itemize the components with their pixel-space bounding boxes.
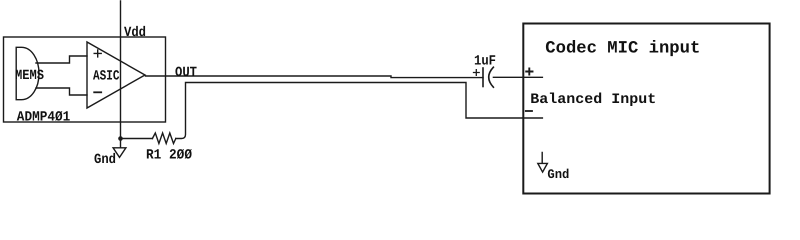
node junction dot <box>118 136 123 141</box>
codec box <box>523 24 769 194</box>
op-amp - input mark <box>94 91 101 93</box>
svg-text:Gnd: Gnd <box>547 167 569 182</box>
capacitor C1 positive plate <box>482 68 484 87</box>
svg-text:OUT: OUT <box>175 65 197 81</box>
wire MEMS to ASIC + input <box>36 56 87 63</box>
svg-text:Vdd: Vdd <box>124 25 146 41</box>
ground symbol codec <box>538 152 548 172</box>
wire Vdd supply vertical <box>120 1 122 139</box>
op-amp + input mark <box>94 50 101 57</box>
wire OUT from op-amp output <box>146 76 484 78</box>
svg-text:Gnd: Gnd <box>94 152 116 168</box>
microphone element MEMS <box>16 47 39 99</box>
codec - input mark <box>526 110 532 112</box>
wire output node to resistor and balanced negative line <box>121 138 153 140</box>
capacitor C1 curved plate <box>489 67 494 87</box>
svg-text:Codec MIC input: Codec MIC input <box>545 39 700 58</box>
codec + input mark <box>526 68 532 74</box>
capacitor polarity + mark <box>474 70 480 76</box>
svg-text:ASIC: ASIC <box>93 69 120 85</box>
svg-text:MEMS: MEMS <box>15 68 44 84</box>
svg-text:R1 2ØØ: R1 2ØØ <box>146 148 193 164</box>
wire capacitor to codec + input <box>493 76 542 78</box>
ground symbol left <box>113 139 126 158</box>
svg-text:1uF: 1uF <box>474 54 496 70</box>
svg-text:Balanced Input: Balanced Input <box>530 92 656 108</box>
wire resistor to lower rail <box>176 83 543 139</box>
wire MEMS to ASIC - input <box>36 88 87 95</box>
op-amp ASIC triangle <box>87 42 145 108</box>
resistor R1 <box>152 133 175 144</box>
module box ADMP401 <box>4 37 166 122</box>
svg-text:ADMP4Ø1: ADMP4Ø1 <box>17 110 71 126</box>
